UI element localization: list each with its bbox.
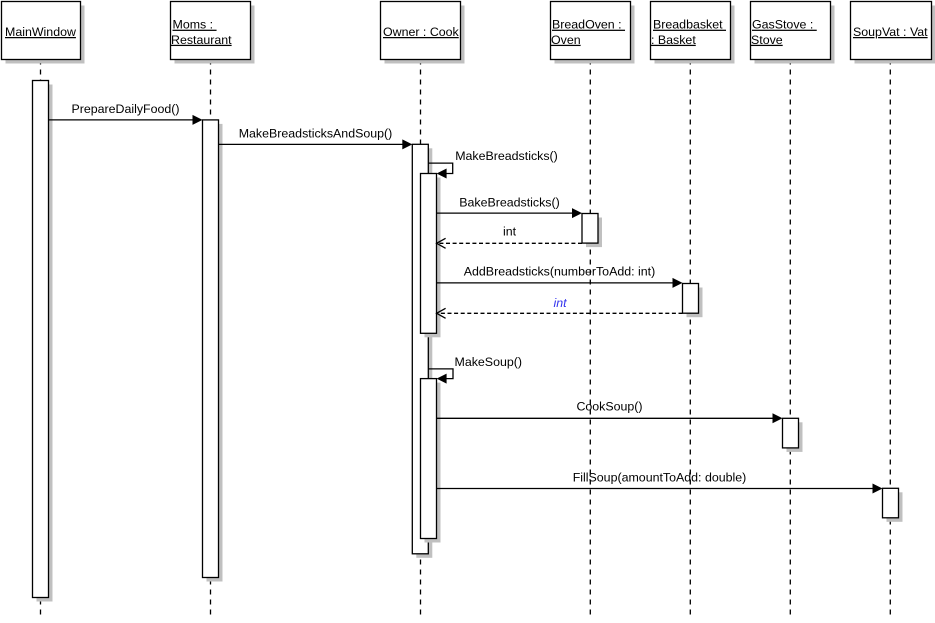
message PrepareDailyFood	[49, 102, 203, 125]
activation Owner act3 MakeSoup	[421, 379, 441, 543]
lifeline SoupVat	[889, 60, 891, 618]
activation GasStove	[783, 418, 803, 452]
activation BreadOven	[582, 214, 602, 248]
activation Owner act2 MakeBreadsticks	[421, 174, 441, 338]
activation Moms	[203, 120, 223, 582]
svg-text:PrepareDailyFood(): PrepareDailyFood()	[71, 102, 179, 116]
svg-text:BakeBreadsticks(): BakeBreadsticks()	[459, 196, 560, 210]
svg-text:MakeBreadsticksAndSoup(): MakeBreadsticksAndSoup()	[239, 127, 393, 141]
message FillSoup	[437, 471, 883, 494]
header box BreadOven : Oven	[551, 2, 635, 64]
header box MainWindow	[2, 2, 85, 64]
svg-text:Stove: Stove	[751, 33, 783, 47]
message BakeBreadsticks	[437, 196, 582, 219]
svg-text:Oven: Oven	[551, 33, 581, 47]
svg-text:int: int	[553, 296, 567, 310]
svg-text:MainWindow: MainWindow	[5, 25, 76, 39]
lifeline Moms	[210, 60, 212, 618]
self message MakeBreadsticks	[429, 149, 558, 179]
lifeline BreadOven	[589, 60, 591, 618]
lifeline Breadbasket	[689, 60, 691, 618]
activation Breadbasket	[683, 284, 703, 318]
lifeline MainWindow	[40, 60, 42, 618]
svg-text:CookSoup(): CookSoup()	[576, 399, 642, 413]
header box Moms : Restaurant	[171, 2, 255, 64]
svg-text:: Basket: : Basket	[651, 33, 696, 47]
svg-text:int: int	[503, 224, 517, 238]
activation SoupVat	[883, 488, 903, 522]
header box SoupVat : Vat	[851, 2, 935, 64]
activation Owner act1	[412, 144, 432, 558]
lifeline Owner	[420, 60, 422, 618]
svg-text:FillSoup(amountToAdd: double): FillSoup(amountToAdd: double)	[573, 471, 747, 485]
message CookSoup	[437, 399, 783, 423]
svg-text:Owner : Cook: Owner : Cook	[383, 25, 460, 39]
svg-text:Restaurant: Restaurant	[171, 33, 232, 47]
svg-text:GasStove :: GasStove :	[752, 18, 817, 32]
svg-text:AddBreadsticks(numberToAdd: in: AddBreadsticks(numberToAdd: int)	[464, 264, 655, 278]
activation MainWindow	[33, 81, 53, 602]
svg-text:MakeSoup(): MakeSoup()	[455, 355, 523, 369]
svg-text:SoupVat : Vat: SoupVat : Vat	[853, 25, 928, 39]
header box GasStove : Stove	[751, 2, 835, 64]
message AddBreadsticks	[437, 264, 683, 288]
header box Breadbasket : Basket	[651, 2, 735, 64]
header box Owner : Cook	[381, 2, 465, 64]
self message MakeSoup	[429, 355, 523, 383]
svg-text:BreadOven :: BreadOven :	[552, 18, 625, 32]
return int from BreadOven	[437, 224, 582, 248]
svg-text:Moms :: Moms :	[173, 18, 217, 32]
lifeline GasStove	[789, 60, 791, 618]
svg-text:MakeBreadsticks(): MakeBreadsticks()	[455, 149, 558, 163]
message MakeBreadsticksAndSoup	[219, 127, 413, 150]
svg-text:Breadbasket: Breadbasket	[653, 18, 726, 32]
return int from Breadbasket (blue italic)	[437, 296, 683, 318]
